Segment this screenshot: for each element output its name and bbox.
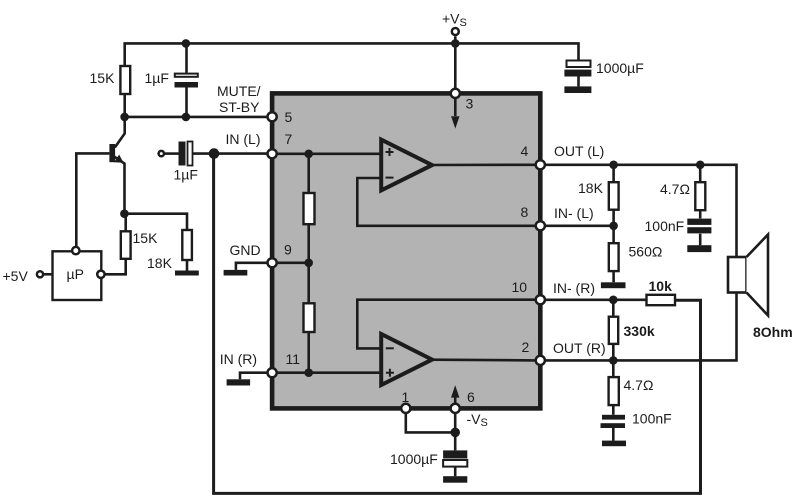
- svg-text:330k: 330k: [624, 323, 655, 339]
- svg-text:15K: 15K: [90, 70, 116, 86]
- svg-text:9: 9: [284, 242, 292, 258]
- svg-text:µP: µP: [67, 266, 84, 282]
- svg-text:100nF: 100nF: [632, 411, 672, 427]
- svg-text:1µF: 1µF: [145, 70, 169, 86]
- svg-text:IN (R): IN (R): [220, 351, 257, 367]
- svg-text:15K: 15K: [133, 230, 159, 246]
- svg-text:4.7Ω: 4.7Ω: [624, 377, 654, 393]
- svg-text:11: 11: [286, 351, 301, 367]
- svg-text:4.7Ω: 4.7Ω: [660, 181, 690, 197]
- svg-text:8: 8: [521, 204, 529, 220]
- svg-text:4: 4: [521, 143, 529, 159]
- svg-text:6: 6: [467, 389, 475, 405]
- svg-text:2: 2: [522, 339, 530, 355]
- svg-text:ST-BY: ST-BY: [219, 99, 260, 115]
- svg-text:10k: 10k: [649, 278, 673, 294]
- svg-text:OUT (L): OUT (L): [554, 143, 604, 159]
- svg-text:560Ω: 560Ω: [629, 244, 663, 260]
- svg-text:100nF: 100nF: [645, 218, 685, 234]
- svg-text:GND: GND: [230, 242, 261, 258]
- svg-text:MUTE/: MUTE/: [217, 83, 261, 99]
- svg-text:1µF: 1µF: [174, 167, 198, 183]
- svg-text:+5V: +5V: [3, 268, 29, 284]
- svg-text:3: 3: [466, 96, 474, 112]
- svg-text:1000µF: 1000µF: [390, 451, 438, 467]
- svg-text:10: 10: [512, 279, 528, 295]
- svg-text:IN- (L): IN- (L): [554, 205, 594, 221]
- svg-text:18K: 18K: [147, 255, 173, 271]
- svg-text:5: 5: [285, 109, 293, 125]
- svg-text:8Ohm: 8Ohm: [753, 324, 793, 340]
- svg-text:7: 7: [285, 131, 293, 147]
- svg-text:IN- (R): IN- (R): [553, 280, 595, 296]
- svg-text:OUT (R): OUT (R): [553, 340, 606, 356]
- svg-text:IN (L): IN (L): [226, 131, 261, 147]
- svg-text:1000µF: 1000µF: [596, 60, 644, 76]
- svg-text:18K: 18K: [578, 180, 604, 196]
- svg-text:1: 1: [402, 389, 410, 405]
